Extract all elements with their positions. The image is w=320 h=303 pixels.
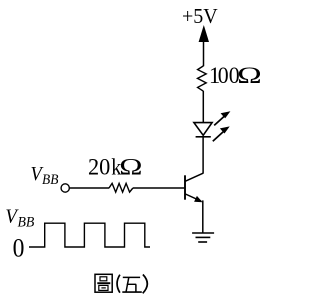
wire emitter to ground [202,200,204,233]
svg-text:+5V: +5V [182,6,218,29]
ground bar 2 [196,236,211,238]
svg-text:Ω: Ω [119,155,142,180]
resistor R1 zigzag [198,66,207,91]
transistor Q1 emitter diagonal [185,194,201,201]
wire LED to transistor collector [202,137,204,174]
LED light arrow lower [213,126,230,141]
wire resistor R2 to base [133,187,184,189]
LED D1 cathode bar [196,136,211,138]
power arrow [199,25,209,42]
caption right paren [143,275,148,294]
transistor Q1 emitter arrowhead [194,196,203,202]
svg-text:BB: BB [42,172,59,188]
wire arrow to resistor [203,41,205,66]
resistor R2 zigzag [109,183,133,192]
LED light arrow upper [214,111,230,125]
svg-text:Ω: Ω [237,62,262,88]
caption glyph tu (figure) [95,274,112,292]
transistor Q1 collector diagonal [185,173,203,181]
transistor Q1 base bar [184,175,186,199]
wire terminal to resistor R2 [70,187,110,189]
caption left paren [117,275,120,293]
caption glyph wu (five) [122,277,142,292]
wire resistor to LED [202,91,204,123]
terminal circle VBB [61,184,69,192]
svg-text:BB: BB [18,214,35,231]
LED D1 triangle [194,123,212,136]
svg-text:0: 0 [13,234,25,263]
svg-text:20: 20 [88,154,110,179]
ground bar 3 [198,241,207,243]
waveform square wave [29,223,150,247]
ground bar 1 [192,232,214,234]
